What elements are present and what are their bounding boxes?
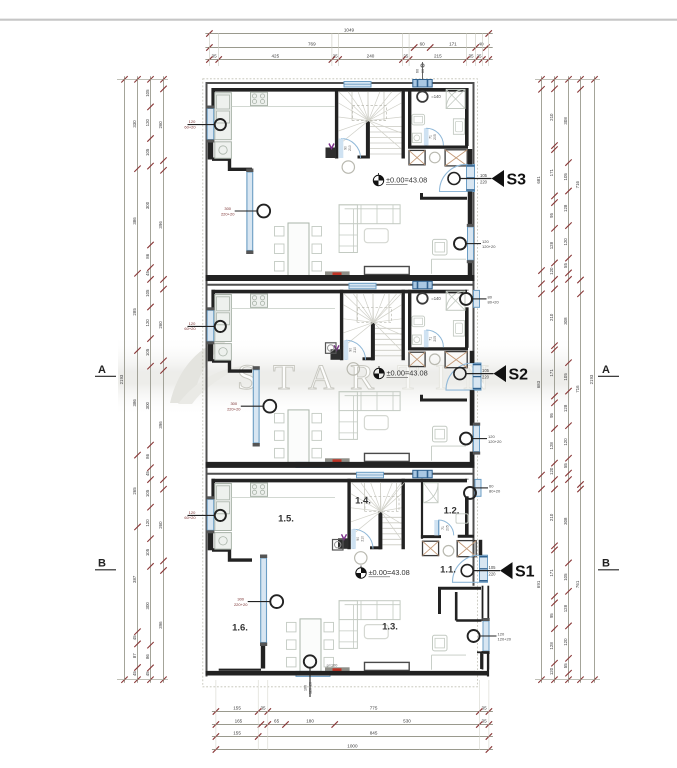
unit3 dining table — [300, 619, 321, 672]
unit2 shower — [446, 291, 465, 310]
unit2 kitchen circle — [215, 321, 226, 332]
unit3 section circle — [461, 565, 473, 577]
left chain segments B — [150, 76, 152, 682]
svg-text:105: 105 — [145, 89, 150, 97]
svg-text:120+20: 120+20 — [309, 682, 313, 694]
svg-text:55: 55 — [563, 463, 568, 468]
unit3 bathroom bottom wall b — [458, 535, 474, 538]
unit1 section circle — [448, 173, 460, 185]
unit3 fireplace — [325, 667, 350, 673]
svg-text:210: 210 — [549, 313, 554, 321]
svg-text:55: 55 — [563, 663, 568, 668]
unit1 section stem — [460, 178, 491, 180]
unit1 left wall below window — [208, 140, 214, 160]
svg-text:87: 87 — [132, 653, 137, 658]
unit1 kitchen window — [207, 109, 214, 140]
unit3 left wall below window — [208, 530, 214, 550]
unit2 marker triangle — [494, 365, 507, 382]
svg-text:±0.00=43.08: ±0.00=43.08 — [386, 176, 427, 185]
unit2 hall closet left — [409, 352, 425, 366]
svg-text:220+20: 220+20 — [234, 602, 248, 607]
unit2 right wall seg0 — [470, 351, 475, 363]
unit3 kitchen fridge — [217, 486, 230, 500]
unit3 stair fan lines — [351, 482, 381, 511]
unit3 terrace window — [261, 558, 267, 643]
svg-text:180: 180 — [306, 719, 314, 724]
svg-text:120+20: 120+20 — [498, 637, 512, 642]
unit1 tv bench — [365, 267, 410, 275]
unit1 kitchen cabinet — [215, 93, 232, 140]
svg-text:308: 308 — [563, 117, 568, 125]
unit1 kitchen step wall — [212, 159, 252, 169]
unit1 entry window band — [467, 164, 475, 191]
unit2 counter line — [232, 307, 336, 309]
svg-text:71: 71 — [429, 135, 433, 139]
unit1 right lower stem — [466, 243, 481, 245]
svg-text:A: A — [98, 364, 106, 376]
unit3 right jut wall a — [480, 652, 482, 669]
unit3 right lower window caps — [482, 618, 489, 621]
unit2 bathroom door leaf — [425, 330, 427, 347]
unit2 hall circle — [430, 354, 441, 365]
svg-text:105: 105 — [145, 489, 150, 497]
svg-text:171: 171 — [449, 42, 457, 47]
svg-text:120: 120 — [145, 519, 150, 527]
unit3 right top circle — [464, 487, 476, 499]
unit1 right lower circle — [454, 238, 466, 250]
unit1 bathroom door hatch — [424, 128, 429, 145]
unit2 bathroom bottom wall — [408, 347, 468, 350]
unit1 inner top wall — [212, 88, 468, 92]
unit2 section circle — [454, 368, 466, 380]
svg-text:205: 205 — [433, 336, 437, 342]
bottom dim extensions — [215, 680, 217, 750]
svg-text:210: 210 — [348, 145, 352, 151]
svg-text:260: 260 — [158, 321, 163, 329]
eaves dashed outline — [203, 79, 478, 687]
svg-text:95: 95 — [549, 413, 554, 418]
svg-text:396: 396 — [158, 621, 163, 629]
svg-text:95: 95 — [549, 213, 554, 218]
svg-text:1.3.: 1.3. — [382, 622, 398, 633]
unit3 stair door circle — [355, 552, 367, 564]
unit3 hall closet left — [423, 541, 439, 555]
bottom dim row2 — [212, 724, 493, 726]
unit3 stair dashed line — [365, 496, 399, 511]
svg-text:105: 105 — [563, 173, 568, 181]
unit1 bottom wall — [206, 275, 475, 281]
unit3 elevation benchmark — [356, 568, 366, 578]
svg-text:B: B — [98, 558, 106, 570]
svg-text:220+20: 220+20 — [221, 211, 235, 216]
svg-text:265: 265 — [132, 487, 137, 495]
svg-text:691: 691 — [536, 580, 541, 588]
unit1 terrace circle — [257, 205, 270, 218]
svg-text:171: 171 — [549, 168, 554, 176]
unit1 pillar window — [413, 80, 432, 88]
unit3 vent mark — [342, 534, 347, 539]
unit2 right top circle — [460, 293, 472, 305]
unit3 right inner wall a — [465, 477, 469, 481]
unit3 hall wall — [440, 588, 482, 614]
svg-text:300: 300 — [237, 597, 244, 602]
unit2 terrace stem — [241, 405, 264, 407]
svg-text:210: 210 — [361, 536, 365, 542]
unit3 elevation underline — [369, 576, 391, 578]
unit2 stair left wall — [340, 290, 343, 361]
unit1 bathroom bottom wall — [408, 146, 468, 149]
unit3 terrace front wall — [219, 669, 261, 671]
left chain segments A — [137, 76, 139, 682]
unit1 bathroom left wall — [408, 88, 411, 148]
unit2 stove — [251, 294, 268, 307]
top dim row1 1049 — [205, 33, 492, 35]
bottom dim row3 — [212, 736, 493, 738]
svg-text:761: 761 — [575, 580, 580, 588]
unit3 stair right wall — [402, 479, 405, 550]
unit2 right lower window caps — [473, 423, 480, 426]
unit2 inner top wall — [212, 290, 468, 294]
svg-text:775: 775 — [370, 706, 378, 711]
svg-text:300: 300 — [145, 201, 150, 209]
unit1 desk lines — [431, 259, 433, 274]
watermark swoosh logo — [170, 336, 232, 403]
unit3 wc — [445, 499, 447, 501]
unit2 top stair window — [349, 283, 376, 289]
svg-text:105: 105 — [489, 565, 497, 570]
svg-text:45: 45 — [132, 671, 137, 676]
unit1 armchair — [433, 239, 448, 255]
unit3 stair door arc — [354, 529, 374, 549]
unit2 kitchen window — [207, 310, 214, 341]
right outer wall upper — [473, 82, 475, 586]
svg-text:155: 155 — [233, 731, 241, 736]
unit3 right wall seg1a — [482, 586, 484, 621]
unit2 armchair — [433, 426, 448, 442]
svg-text:90: 90 — [344, 146, 348, 150]
svg-text:60: 60 — [421, 69, 425, 73]
svg-text:300: 300 — [145, 401, 150, 409]
svg-text:55: 55 — [563, 263, 568, 268]
unit1 fireplace — [325, 271, 350, 277]
unit1 stair door arc — [341, 139, 361, 159]
svg-text:86: 86 — [145, 453, 150, 458]
svg-text:45: 45 — [145, 271, 150, 276]
unit1 kitchen fridge — [217, 95, 230, 109]
svg-text:530: 530 — [403, 719, 411, 724]
svg-text:396: 396 — [158, 421, 163, 429]
unit3 right top stem — [474, 487, 489, 489]
svg-text:240: 240 — [367, 54, 375, 59]
unit1 washer — [453, 119, 464, 135]
svg-text:p=100: p=100 — [327, 664, 338, 668]
unit2 shaft box — [331, 349, 342, 360]
svg-text:128: 128 — [549, 642, 554, 650]
svg-text:128: 128 — [549, 442, 554, 450]
unit3 marker triangle — [500, 562, 513, 579]
unit2 stair door arc — [346, 340, 366, 360]
svg-text:2193: 2193 — [589, 374, 594, 384]
unit3 shower — [424, 483, 439, 503]
svg-text:128: 128 — [549, 241, 554, 249]
svg-text:=140: =140 — [431, 94, 441, 99]
unit2 right lower circle — [460, 433, 472, 445]
svg-text:STAR: STAR — [237, 357, 390, 397]
bottom dim row1 — [212, 711, 493, 713]
svg-text:220: 220 — [480, 179, 488, 184]
svg-text:128: 128 — [563, 604, 568, 612]
unit1 right lower window — [468, 227, 474, 260]
svg-text:220: 220 — [482, 375, 490, 380]
unit3 desk lines — [431, 655, 433, 670]
unit3 bottom wall — [206, 671, 475, 676]
svg-text:60: 60 — [416, 69, 420, 73]
left chain 2193 — [124, 76, 126, 682]
unit1 coffee table — [364, 229, 388, 243]
svg-text:120: 120 — [549, 667, 554, 675]
unit3 top stair window — [357, 472, 384, 478]
unit1 stair door circle — [342, 161, 354, 173]
svg-text:396: 396 — [158, 221, 163, 229]
svg-text:±0.00=43.08: ±0.00=43.08 — [369, 568, 410, 577]
unit2 kitchen fridge — [217, 297, 230, 311]
svg-text:120: 120 — [189, 510, 196, 515]
unit1 stair dashed line — [353, 106, 387, 121]
unit1 right wall seg1 — [468, 192, 473, 227]
unit1 right inner wall — [465, 88, 469, 146]
unit3 armchair — [433, 635, 448, 651]
unit2 bathroom door arc — [426, 330, 443, 347]
right chains bottom line — [535, 679, 600, 681]
svg-text:1.4.: 1.4. — [355, 496, 371, 507]
unit3 entry band bars — [480, 556, 488, 558]
unit1 terrace stem — [235, 210, 258, 212]
unit1 hall closet left — [409, 150, 425, 164]
unit1 bathroom door leaf — [425, 128, 427, 145]
unit3 terrace circle — [270, 595, 283, 608]
unit1 entry band bars — [467, 165, 475, 167]
unit1 shaft box — [326, 148, 337, 159]
left chain segments C — [163, 76, 165, 682]
unit3 right lower window — [483, 621, 489, 651]
unit2 section stem — [466, 373, 493, 375]
unit1 sink — [412, 114, 425, 125]
unit2 hall closet right — [445, 352, 467, 368]
svg-text:60+20: 60+20 — [184, 515, 196, 520]
svg-text:308: 308 — [563, 317, 568, 325]
unit3 stair left wall — [347, 479, 350, 550]
left chains bottom line — [117, 679, 168, 681]
unit1 hall wall — [422, 193, 468, 198]
unit3 room 1.1 wall v — [455, 592, 458, 621]
unit2 coffee table — [364, 416, 388, 430]
svg-text:2193: 2193 — [119, 374, 124, 384]
top dim row2 — [205, 47, 492, 49]
unit2 entry window band — [473, 363, 481, 390]
unit3 stair bottom stub — [370, 546, 382, 549]
unit2 left inner wall upper — [211, 290, 215, 311]
unit1 right wall seg0 — [468, 149, 473, 164]
unit1 stove — [251, 92, 268, 105]
svg-text:65: 65 — [274, 719, 280, 724]
unit1 bathroom door arc — [426, 128, 443, 145]
unit1 stair left wall — [335, 88, 338, 159]
unit2 terrace window caps — [253, 366, 260, 370]
unit1 kitchen circle — [215, 119, 226, 130]
unit3 entry door arc — [452, 555, 479, 582]
svg-text:S2: S2 — [509, 367, 529, 384]
svg-text:45: 45 — [145, 471, 150, 476]
unit2 desk lines — [431, 446, 433, 461]
svg-text:205: 205 — [433, 134, 437, 140]
unit3 right wall seg0 — [479, 540, 483, 555]
svg-text:845: 845 — [370, 731, 378, 736]
unit1 terrace window caps — [246, 169, 253, 173]
unit3 right inner wall b — [465, 496, 469, 537]
unit2 elevation benchmark — [374, 368, 384, 378]
svg-text:60+20: 60+20 — [184, 326, 196, 331]
svg-text:210: 210 — [353, 347, 357, 353]
svg-text:220+20: 220+20 — [227, 407, 241, 412]
svg-text:60+20: 60+20 — [184, 124, 196, 129]
svg-text:716: 716 — [575, 385, 580, 393]
svg-text:210: 210 — [549, 113, 554, 121]
svg-text:86: 86 — [145, 654, 150, 659]
unit3 sink — [456, 514, 468, 523]
unit2 entry band bars — [473, 364, 481, 366]
unit2 stair door hatch — [344, 340, 349, 360]
svg-text:260: 260 — [158, 121, 163, 129]
unit2 plumbing circle 140 — [417, 293, 428, 304]
unit3 kitchen lower cabinet — [215, 533, 232, 550]
left chains top line — [117, 78, 168, 80]
svg-text:S3: S3 — [507, 172, 527, 189]
unit1 shower — [446, 89, 465, 108]
unit2 terrace circle — [263, 400, 276, 413]
unit1 kitchen stem — [188, 124, 215, 126]
unit2 wc — [412, 335, 421, 344]
unit3 right wall seg2a — [482, 651, 484, 670]
svg-text:105: 105 — [145, 148, 150, 156]
svg-text:171: 171 — [549, 369, 554, 377]
svg-text:105: 105 — [563, 573, 568, 581]
svg-text:1.1.: 1.1. — [440, 565, 456, 576]
svg-text:165: 165 — [235, 719, 243, 724]
unit2 kitchen step wall — [212, 361, 252, 371]
unit2 outer top wall — [206, 284, 475, 286]
unit2 bathroom left wall — [408, 290, 411, 350]
unit1 stair bottom stub — [358, 156, 370, 159]
svg-text:1.6.: 1.6. — [232, 623, 248, 634]
unit1 elevation underline — [386, 183, 408, 185]
unit3 stove — [251, 483, 268, 496]
unit1 vent mark — [329, 144, 334, 149]
unit3 hall circle — [443, 546, 454, 557]
unit1 stair door hatch — [339, 139, 344, 159]
svg-text:45: 45 — [145, 671, 150, 676]
svg-text:386: 386 — [132, 399, 137, 407]
unit3 bottom window — [296, 671, 330, 676]
unit1 elevation benchmark — [373, 175, 383, 185]
unit2 washer — [453, 321, 464, 337]
svg-text:105: 105 — [480, 173, 488, 178]
unit3 bathroom left wall — [421, 479, 423, 539]
svg-text:155: 155 — [233, 706, 241, 711]
top page divider line — [0, 19, 677, 21]
svg-text:71: 71 — [429, 337, 433, 341]
svg-text:105: 105 — [145, 348, 150, 356]
unit3 stair treads — [383, 516, 402, 518]
unit2 terrace window — [253, 370, 259, 443]
unit3 kitchen step wall — [212, 550, 252, 560]
unit3 kitchen window caps — [207, 496, 215, 499]
unit2 stair treads — [375, 327, 402, 329]
unit3 bathroom door hatch — [434, 520, 438, 535]
svg-text:105: 105 — [563, 373, 568, 381]
unit3 right wall seg2b — [487, 651, 489, 670]
unit3 bathroom door leaf — [437, 520, 439, 535]
svg-text:769: 769 — [308, 42, 316, 47]
top dim row3 — [205, 59, 492, 61]
unit2 stair door leaf — [345, 340, 347, 360]
unit1 stair fan lines — [339, 92, 369, 121]
unit2 right lower window — [474, 426, 480, 452]
unit3 terrace stem — [248, 601, 271, 603]
unit3 stair newel wall — [378, 511, 382, 549]
right chain D — [580, 76, 582, 682]
unit2 sink — [412, 316, 425, 327]
unit3 hall closet right — [457, 541, 476, 557]
svg-text:120+20: 120+20 — [482, 244, 496, 249]
unit1 stair right wall — [402, 88, 405, 159]
svg-text:A: A — [602, 364, 610, 376]
svg-text:±0.00=43.08: ±0.00=43.08 — [387, 369, 428, 378]
unit1 marker triangle — [492, 170, 505, 187]
unit2 right wall seg1 — [470, 390, 475, 426]
unit2 kitchen cabinet — [215, 295, 232, 342]
unit1 pillar stem — [422, 62, 424, 80]
svg-text:128: 128 — [563, 204, 568, 212]
unit3 right top window — [475, 479, 481, 496]
unit3 bottom wall extension — [474, 671, 489, 676]
unit2 stair dashed line — [358, 307, 392, 322]
svg-text:1000: 1000 — [347, 744, 358, 749]
svg-text:1.2.: 1.2. — [444, 506, 460, 517]
svg-text:60: 60 — [420, 42, 426, 47]
unit1 dining table — [288, 223, 309, 276]
right chain A — [541, 76, 543, 682]
unit3 counter line — [232, 496, 336, 498]
unit2 sofa — [339, 392, 400, 411]
svg-text:330: 330 — [132, 120, 137, 128]
unit2 bottom wall — [206, 462, 475, 468]
unit2 left wall below window — [208, 341, 214, 361]
unit2 stair right wall — [402, 290, 405, 361]
right chain C — [568, 76, 570, 682]
unit2 entry door arc — [446, 363, 473, 390]
svg-text:171: 171 — [549, 569, 554, 577]
svg-text:681: 681 — [536, 176, 541, 184]
unit3 left inner wall upper — [211, 479, 215, 500]
svg-text:205: 205 — [446, 525, 450, 531]
unit1 hall closet right — [445, 150, 467, 166]
unit3 room 1.1 wall h — [456, 619, 481, 622]
svg-text:120: 120 — [145, 118, 150, 126]
svg-text:95: 95 — [549, 613, 554, 618]
unit2 kitchen window caps — [207, 307, 215, 310]
unit2 kitchen stem — [188, 325, 215, 327]
unit2 stair newel wall — [371, 322, 375, 360]
